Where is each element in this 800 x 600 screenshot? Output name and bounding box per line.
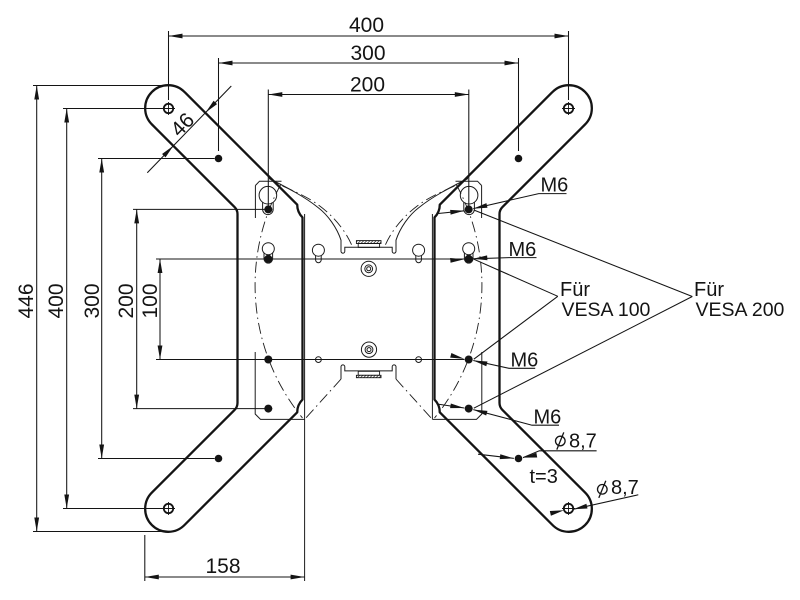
diameter symbol 2	[598, 485, 608, 495]
dim line 446 left	[36, 86, 38, 532]
flange outer edge lower segment, chamfer, bottom edge	[255, 352, 304, 419]
extension line x=518.5	[518, 58, 520, 151]
dim line 300 top	[219, 62, 519, 64]
arrow 158 right	[291, 575, 305, 580]
arrows at arm hole 8,7	[500, 454, 514, 460]
dim line 400 top	[169, 35, 569, 37]
svg-text:200: 200	[115, 283, 138, 318]
arrow 300 left bottom	[99, 445, 104, 459]
keyhole slot row1 neck	[263, 202, 274, 214]
arm mid hole top-right	[515, 155, 523, 163]
leader diameter 8,7 label 2	[573, 495, 638, 510]
arrow 400 top right	[555, 34, 569, 39]
extension line y=108.5	[63, 108, 164, 110]
extension line x=168.5	[168, 31, 170, 100]
svg-text:M6: M6	[511, 349, 539, 371]
center-plate top keyhole neck	[316, 256, 322, 263]
arrows at M6 hole 3	[450, 353, 465, 361]
extension line x=268.3	[267, 90, 269, 207]
arm end hole top-left with center cross	[162, 102, 175, 115]
svg-text:200: 200	[350, 73, 385, 96]
extension line y=458.5	[98, 458, 215, 460]
arrow 46 lower	[162, 144, 175, 157]
svg-text:t=3: t=3	[530, 466, 558, 488]
leader VESA100 to hole 2	[474, 259, 558, 296]
arrow 400 left top	[64, 109, 69, 123]
arm end hole top-right	[562, 102, 575, 115]
arrow tail at M6 hole 4	[437, 404, 464, 408]
M6 hole row2	[264, 255, 272, 263]
svg-text:8,7: 8,7	[611, 477, 639, 499]
svg-text:300: 300	[81, 283, 104, 318]
arrow 300 left top	[99, 159, 104, 173]
svg-text:Für: Für	[560, 279, 590, 301]
svg-text:400: 400	[349, 14, 384, 37]
svg-text:M6: M6	[509, 239, 537, 261]
top rubber pad hatched strip	[356, 241, 381, 244]
svg-text:446: 446	[15, 283, 38, 318]
extension line y=259 through VESA100 row	[156, 258, 464, 260]
S-curve top edge into bridge wall	[269, 179, 341, 247]
arrow 46 upper	[204, 101, 217, 114]
arrow 446 bottom	[34, 518, 39, 532]
svg-text:VESA 200: VESA 200	[696, 299, 785, 321]
flange top edge with chamfer	[255, 181, 281, 185]
keyhole slot row2 circle	[262, 243, 274, 255]
arrows at arm end hole 8,7	[550, 508, 565, 516]
thin mount-head part, mirrored right half	[369, 179, 482, 420]
arrow 100 left top	[158, 259, 163, 273]
leader M6 label 1	[473, 194, 566, 209]
bridge bottom-left wall, hook and floor	[341, 365, 369, 379]
extension line y=408.6	[133, 408, 272, 410]
svg-text:Für: Für	[694, 279, 724, 301]
bottom rubber pad box	[358, 371, 379, 375]
svg-text:8,7: 8,7	[569, 430, 597, 452]
arrow tail at arm hole bottom-right	[478, 454, 514, 458]
arrows at M6 hole 2	[450, 257, 464, 263]
dim line 158 bottom	[145, 576, 305, 578]
arm end hole bottom-left	[162, 502, 175, 515]
arm end hole bottom-right	[562, 502, 575, 515]
arrows at M6 hole 4	[450, 403, 465, 410]
leader VESA100 to hole 3	[474, 296, 558, 359]
extension line y=158.5	[98, 158, 215, 160]
flange outer edge upper segment	[254, 186, 256, 219]
arrow 200 left top	[134, 209, 139, 223]
X-bracket outline mirrored right half	[435, 85, 592, 532]
keyhole slot row2 neck	[264, 253, 273, 263]
arrow tail at M6 hole 1	[437, 211, 464, 214]
extension line y=209.4	[133, 208, 272, 210]
phantom arc, hidden flange edge	[255, 184, 302, 418]
extension line y=531.5	[33, 531, 166, 533]
dim line 46 diagonal	[147, 86, 231, 173]
center-plate bottom small hole	[316, 357, 322, 363]
extension line y=359.5 through VESA100 row	[156, 359, 464, 361]
extension line y=508.5	[63, 508, 164, 510]
top adjuster concentric circles	[361, 261, 376, 276]
arm mid hole bottom-right	[515, 455, 523, 463]
leader VESA200 to hole 4	[474, 297, 693, 409]
extension line x=568.5	[568, 31, 570, 100]
flange inner vertical edge right	[431, 214, 433, 419]
arrow 200 top left	[268, 92, 282, 97]
bottom adjuster concentric circles	[361, 342, 376, 357]
arm mid hole top-left	[215, 155, 223, 163]
extension line x=218.5	[218, 58, 220, 151]
top rubber pad box	[358, 244, 379, 248]
extension line y=85.5	[33, 85, 166, 87]
dim line 400 left	[66, 109, 68, 509]
bottom rubber pad hatched strip	[356, 375, 381, 377]
arrow 100 left bottom	[158, 346, 163, 360]
leader M6 label 4	[473, 410, 559, 426]
svg-text:300: 300	[350, 42, 385, 65]
arrow 200 left bottom	[134, 395, 139, 409]
dim line 300 left	[101, 159, 103, 459]
arrow 446 top	[34, 86, 39, 100]
dim line 100 left	[159, 259, 161, 360]
extension line x=468.8	[468, 90, 470, 207]
arrow 400 left bottom	[64, 495, 69, 509]
M6 hole row3	[264, 356, 272, 364]
leader M6 label 3	[473, 361, 535, 369]
arrows at M6 hole 1	[450, 208, 464, 214]
svg-text:400: 400	[45, 283, 68, 318]
svg-text:M6: M6	[534, 407, 562, 429]
svg-text:158: 158	[205, 555, 240, 578]
phantom companion curve top	[283, 186, 353, 247]
svg-text:VESA 100: VESA 100	[562, 299, 651, 321]
dim line 200 left	[136, 209, 138, 408]
svg-text:100: 100	[139, 283, 162, 318]
leader diameter 8,7 label 1	[523, 451, 597, 458]
extension line x=144.8	[144, 535, 146, 581]
svg-text:M6: M6	[541, 174, 569, 196]
leader M6 label 2	[473, 258, 536, 259]
arm mid hole bottom-left	[215, 455, 223, 463]
flange inner vertical edge left, continues as 158 extension line	[304, 214, 306, 581]
phantom diagonal bottom	[305, 379, 341, 419]
arrow 200 top right	[455, 92, 469, 97]
bridge top-left wall, hook and floor	[341, 240, 369, 253]
keyhole slot row1 circle	[259, 186, 277, 204]
diameter symbol 1	[556, 436, 566, 446]
M6 hole row1	[264, 205, 272, 213]
leader VESA200 to hole 1	[474, 210, 693, 297]
arrow 158 left	[145, 575, 159, 580]
thin mount-head part, left half	[255, 179, 368, 420]
dim line 200 top	[268, 94, 469, 96]
X-bracket outline left half: arms and vertical bar	[145, 85, 302, 532]
arrow 300 top right	[505, 61, 519, 66]
arrow 300 top left	[219, 61, 233, 66]
arrow 400 top left	[169, 34, 183, 39]
M6 hole row4	[264, 405, 272, 413]
center-plate top keyhole circle	[312, 244, 324, 256]
